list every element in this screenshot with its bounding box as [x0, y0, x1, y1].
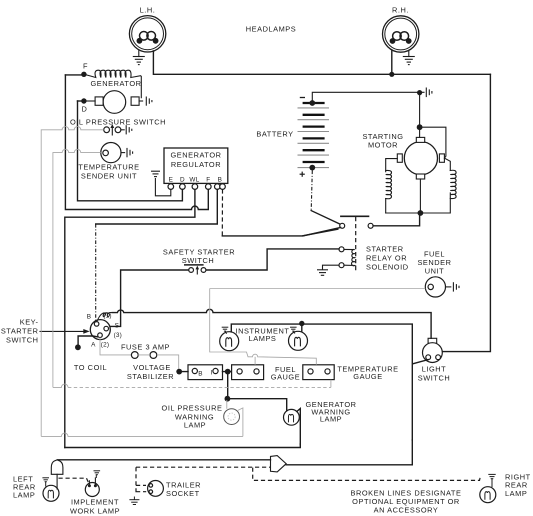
- wire safety switch left to key switch S: [108, 270, 188, 326]
- svg-text:STARTER: STARTER: [366, 245, 404, 254]
- node battery plus: [309, 165, 315, 171]
- wire regulator B2 dashed down: [221, 189, 223, 236]
- wire right bus down to light switch: [442, 74, 490, 351]
- starter relay or solenoid: [339, 247, 355, 268]
- wire motor bottom brush to bottom wire: [419, 179, 421, 213]
- wire regulator E to ground: [155, 179, 170, 196]
- wire L.H. lamp left leg to ground: [138, 51, 140, 57]
- headlamp L.H.: [129, 6, 165, 53]
- svg-text:SOLENOID: SOLENOID: [366, 263, 409, 272]
- ground at battery minus: [426, 88, 432, 98]
- wire junction to battery ground: [420, 91, 424, 93]
- svg-text:D: D: [180, 177, 185, 184]
- node minus bus junction: [417, 90, 422, 95]
- svg-text:TEMPERATURE: TEMPERATURE: [78, 163, 139, 172]
- svg-text:LAMP: LAMP: [320, 415, 342, 424]
- node fuel gauge feed: [225, 369, 231, 375]
- svg-text:I: I: [211, 370, 213, 377]
- relay coil: [344, 249, 355, 265]
- svg-text:L.H.: L.H.: [140, 6, 156, 15]
- svg-text:RELAY OR: RELAY OR: [366, 254, 407, 263]
- wire lamp2 stub: [301, 324, 303, 331]
- dashed optional line to right rear lamp: [253, 468, 481, 481]
- wire battery minus to ground and motor: [312, 92, 419, 103]
- gray fuel line down (hop over B bus): [210, 289, 317, 365]
- wire to generator warning lamp: [227, 399, 286, 411]
- node TO COIL: [75, 344, 81, 350]
- svg-text:GAUGE: GAUGE: [271, 373, 300, 382]
- instrument lamp 2: [289, 331, 308, 350]
- svg-text:S: S: [115, 322, 119, 329]
- wire instrument lamps to light switch lower terminal: [231, 324, 412, 440]
- fuel sender unit: [425, 277, 451, 297]
- wire house to left rear lamp: [56, 474, 58, 489]
- instrument lamp 1: [220, 332, 239, 351]
- node motor top junction: [417, 124, 423, 130]
- wire motor right coil to bottom: [386, 193, 451, 213]
- svg-text:TO COIL: TO COIL: [74, 363, 107, 372]
- svg-text:HEADLAMPS: HEADLAMPS: [246, 25, 297, 34]
- ground at right rear lamp: [488, 474, 495, 487]
- arrow connector: [271, 456, 287, 472]
- dashed wire to implement work lamp: [59, 478, 89, 483]
- wire key switch A to coil node: [78, 336, 97, 345]
- svg-text:OIL PRESSURE SWITCH: OIL PRESSURE SWITCH: [70, 117, 166, 126]
- wire R.H. lamp left leg: [391, 51, 393, 74]
- ground at left rear lamp: [42, 478, 49, 487]
- key-starter switch: [90, 320, 110, 340]
- svg-text:LAMP: LAMP: [505, 489, 527, 498]
- cutout switch contact circles: [340, 223, 345, 228]
- ground right of fuel sender: [453, 282, 459, 291]
- node battery minus: [309, 100, 315, 106]
- wire A to fuse (gray): [100, 338, 131, 355]
- wire R.H. lamp right leg to ground: [408, 51, 410, 57]
- trailer socket: [148, 481, 164, 497]
- wire relay lower terminal to ground: [323, 265, 340, 269]
- svg-text:(2): (2): [101, 342, 109, 349]
- wire relay upper terminal to safety switch: [206, 249, 339, 270]
- starting motor armature: [397, 137, 444, 179]
- wire motor right loop: [420, 127, 451, 170]
- regulator terminal circles: [168, 184, 174, 190]
- svg-text:SOCKET: SOCKET: [166, 489, 200, 498]
- node D: [81, 98, 86, 103]
- svg-text:SENDER UNIT: SENDER UNIT: [81, 171, 137, 180]
- starting motor right field coil: [450, 170, 456, 198]
- svg-text:A: A: [91, 342, 96, 349]
- wire key switch B bus to light switch (hops at S wire and fuel line): [112, 309, 431, 338]
- safety starter switch: [184, 265, 206, 275]
- wire regulator F to generator F (hop over WL): [65, 75, 208, 210]
- svg-text:UNIT: UNIT: [425, 267, 444, 276]
- gray temperature line bottom dashed to gauge: [53, 384, 68, 387]
- svg-text:SWITCH: SWITCH: [182, 256, 214, 265]
- oil pressure switch: [104, 124, 125, 136]
- ground right of temperature sender: [127, 148, 133, 157]
- gray temperature sender line left: [53, 149, 101, 387]
- wire cutout blade lower tail: [303, 228, 341, 236]
- ground under R.H. lamp: [403, 57, 415, 65]
- svg-text:REGULATOR: REGULATOR: [171, 160, 221, 169]
- light switch: [423, 338, 443, 362]
- generator regulator box: [164, 148, 228, 183]
- svg-text:AN ACCESSORY: AN ACCESSORY: [374, 505, 439, 514]
- node warning lamp feed: [225, 396, 231, 402]
- svg-text:F: F: [206, 177, 210, 184]
- voltage stabilizer box: [188, 365, 223, 380]
- wire regulator D to generator D: [78, 101, 183, 201]
- wire top bus from L.H. lamp to right side: [153, 51, 490, 74]
- svg-text:WL: WL: [189, 177, 199, 184]
- generator warning lamp: [284, 409, 301, 445]
- gray fuel sender line: [210, 288, 426, 290]
- implement work lamp: [85, 478, 99, 497]
- regulator terminal letters E D WL F B: [169, 177, 222, 184]
- wire D to left vertical: [78, 100, 84, 102]
- gray fuel gauge stub: [254, 357, 256, 365]
- svg-text:LAMPS: LAMPS: [249, 334, 277, 343]
- dashed trailer socket branch: [136, 466, 271, 468]
- wire light switch left terminal diagonal: [413, 360, 428, 364]
- gray oil line bottom with hop to warning lamp: [41, 433, 243, 436]
- svg-text:GENERATOR: GENERATOR: [170, 151, 221, 160]
- wire warning lamps bottom to WL line: [65, 444, 300, 448]
- generator field coil: [86, 70, 141, 98]
- right rear lamp: [480, 487, 496, 503]
- temperature gauge box: [303, 365, 334, 380]
- ground at starter relay: [317, 270, 328, 276]
- oil pressure warning lamp (optional, faint): [224, 400, 243, 436]
- svg-text:LIGHT: LIGHT: [422, 365, 447, 374]
- svg-text:LAMP: LAMP: [13, 491, 35, 500]
- headlamp R.H.: [383, 6, 419, 53]
- svg-text:SWITCH: SWITCH: [418, 374, 450, 383]
- starting motor left field coil: [386, 170, 392, 198]
- wire gauge feed down to warning lamps: [227, 372, 229, 399]
- ground at instrument lamp 2: [290, 327, 297, 333]
- ground right of generator: [146, 97, 152, 106]
- gray oil sender line left: [41, 127, 103, 437]
- wire bottom main from house: [58, 459, 271, 461]
- wire B1 dash-dot down to key switch: [95, 224, 97, 322]
- svg-text:D: D: [82, 105, 88, 114]
- svg-text:MOTOR: MOTOR: [368, 140, 398, 149]
- svg-text:GENERATOR: GENERATOR: [90, 79, 141, 88]
- node junction R.H. leg on bus: [389, 72, 394, 77]
- mechanical link dashed to relay coil: [355, 217, 357, 272]
- svg-text:IMPLEMENT: IMPLEMENT: [71, 498, 119, 507]
- wire fuse to stabilizer feed node (gray): [138, 355, 179, 370]
- cutout switch blade: [311, 211, 340, 225]
- gray temp gauge stub: [330, 380, 332, 388]
- svg-text:R.H.: R.H.: [392, 6, 409, 15]
- ground at trailer socket: [129, 497, 139, 505]
- node lamp2 junction: [299, 321, 304, 326]
- ground right of oil pressure switch: [126, 125, 132, 134]
- svg-text:E: E: [169, 177, 173, 184]
- house connector left rear lamp: [51, 460, 63, 474]
- left rear lamp: [43, 485, 59, 501]
- svg-text:BATTERY: BATTERY: [256, 130, 293, 139]
- svg-text:B: B: [218, 177, 222, 184]
- ground at instrument lamp 1: [222, 327, 229, 334]
- wire stabilizer feed segment: [179, 371, 231, 373]
- svg-text:KEY-: KEY-: [20, 318, 39, 327]
- wire arrow connector to light switch riser: [286, 440, 412, 465]
- ground at regulator E: [151, 171, 160, 176]
- wire regulator WL down-left: [65, 189, 195, 447]
- svg-text:VOLTAGE: VOLTAGE: [133, 363, 171, 372]
- svg-text:STARTER: STARTER: [1, 327, 39, 336]
- ground at implement work lamp: [94, 471, 101, 478]
- node motor bottom junction: [418, 210, 424, 216]
- svg-text:LAMP: LAMP: [184, 420, 206, 429]
- svg-text:SWITCH: SWITCH: [6, 336, 38, 345]
- svg-text:GAUGE: GAUGE: [353, 372, 382, 381]
- wire F to left vertical: [65, 74, 84, 76]
- wire motor left loop: [386, 159, 398, 213]
- fuel gauge box: [232, 365, 264, 380]
- wire regulator B1 left: [96, 189, 218, 224]
- svg-text:WORK LAMP: WORK LAMP: [70, 506, 120, 515]
- svg-text:STABILIZER: STABILIZER: [127, 372, 174, 381]
- node F: [81, 72, 86, 77]
- generator armature: [87, 91, 140, 114]
- wire battery plus broken link down: [311, 171, 312, 211]
- svg-text:F: F: [83, 61, 88, 70]
- svg-text:(3): (3): [114, 332, 122, 339]
- ground under L.H. lamp: [133, 57, 145, 65]
- wire motor top feed: [419, 92, 421, 137]
- svg-text:B: B: [87, 314, 91, 321]
- temperature sender unit: [101, 143, 125, 163]
- wire right contact to motor: [373, 215, 420, 226]
- svg-text:FUSE 3 AMP: FUSE 3 AMP: [121, 342, 170, 351]
- battery: [298, 98, 330, 177]
- svg-text:B: B: [198, 371, 202, 378]
- generator brush gap stub: [139, 100, 143, 102]
- wire B2 to cutout switch: [222, 229, 337, 236]
- node stabilizer feed: [176, 369, 182, 375]
- key switch B terminal arcs: [97, 313, 112, 322]
- cutout switch bar: [340, 215, 369, 217]
